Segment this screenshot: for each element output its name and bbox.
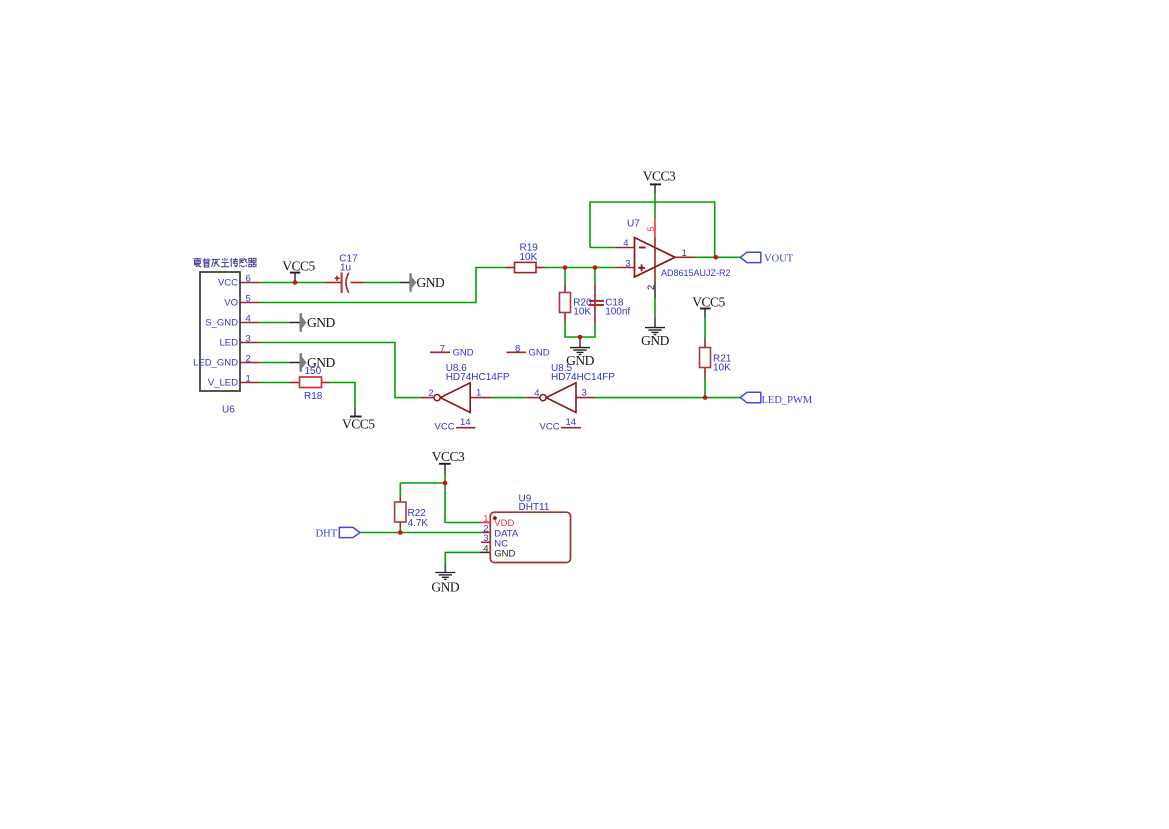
svg-text:3: 3 xyxy=(582,388,587,399)
svg-text:4: 4 xyxy=(623,238,628,249)
svg-text:VO: VO xyxy=(224,298,238,309)
svg-text:VCC3: VCC3 xyxy=(643,168,676,183)
svg-text:5: 5 xyxy=(646,226,657,231)
svg-text:GND: GND xyxy=(417,275,445,290)
svg-text:100nf: 100nf xyxy=(605,306,630,317)
svg-text:LED: LED xyxy=(220,338,239,349)
svg-text:7: 7 xyxy=(440,343,445,354)
svg-text:AD8615AUJZ-R2: AD8615AUJZ-R2 xyxy=(661,268,731,278)
svg-text:VOUT: VOUT xyxy=(764,253,794,264)
svg-text:VCC: VCC xyxy=(218,277,238,288)
svg-text:VCC: VCC xyxy=(435,422,455,433)
svg-text:2: 2 xyxy=(246,353,251,364)
svg-text:4: 4 xyxy=(534,388,539,399)
svg-text:14: 14 xyxy=(566,417,577,428)
svg-text:3: 3 xyxy=(246,333,251,344)
svg-text:GND: GND xyxy=(494,549,515,560)
svg-text:10K: 10K xyxy=(520,252,538,263)
svg-text:1: 1 xyxy=(476,388,481,399)
svg-text:2: 2 xyxy=(428,388,433,399)
svg-text:1: 1 xyxy=(682,248,687,259)
svg-text:VCC5: VCC5 xyxy=(692,294,725,309)
svg-text:14: 14 xyxy=(460,417,471,428)
svg-text:LED_PWM: LED_PWM xyxy=(762,395,813,406)
svg-text:4: 4 xyxy=(246,313,251,324)
svg-text:4.7K: 4.7K xyxy=(408,518,429,529)
svg-text:R18: R18 xyxy=(304,391,323,402)
svg-text:GND: GND xyxy=(431,579,459,594)
svg-text:VCC5: VCC5 xyxy=(282,258,315,273)
svg-text:GND: GND xyxy=(307,315,335,330)
svg-text:1: 1 xyxy=(246,373,251,384)
svg-text:8: 8 xyxy=(515,343,520,354)
svg-text:GND: GND xyxy=(641,333,669,348)
svg-text:U6: U6 xyxy=(222,405,235,416)
svg-text:6: 6 xyxy=(246,273,251,284)
svg-text:5: 5 xyxy=(246,293,251,304)
svg-text:HD74HC14FP: HD74HC14FP xyxy=(446,372,510,383)
svg-text:VCC3: VCC3 xyxy=(432,449,465,464)
svg-text:HD74HC14FP: HD74HC14FP xyxy=(551,372,615,383)
svg-text:10K: 10K xyxy=(573,306,591,317)
svg-text:U7: U7 xyxy=(627,219,640,230)
svg-text:VCC5: VCC5 xyxy=(342,417,375,432)
svg-text:NC: NC xyxy=(494,538,508,549)
svg-text:DHT11: DHT11 xyxy=(519,502,550,513)
svg-text:S_GND: S_GND xyxy=(205,318,238,329)
svg-text:GND: GND xyxy=(453,347,474,358)
svg-text:VDD: VDD xyxy=(494,518,514,529)
svg-text:150: 150 xyxy=(305,366,322,377)
svg-text:4: 4 xyxy=(483,543,488,554)
svg-text:3: 3 xyxy=(625,258,630,269)
svg-text:3: 3 xyxy=(483,533,488,544)
svg-text:10K: 10K xyxy=(713,363,731,374)
svg-text:VCC: VCC xyxy=(540,422,560,433)
svg-text:V_LED: V_LED xyxy=(208,378,238,389)
svg-text:GND: GND xyxy=(529,347,550,358)
svg-text:1: 1 xyxy=(483,514,488,525)
svg-text:DHT: DHT xyxy=(316,528,338,539)
svg-text:LED_GND: LED_GND xyxy=(193,358,238,369)
svg-text:2: 2 xyxy=(646,285,657,290)
svg-text:1u: 1u xyxy=(340,262,351,273)
